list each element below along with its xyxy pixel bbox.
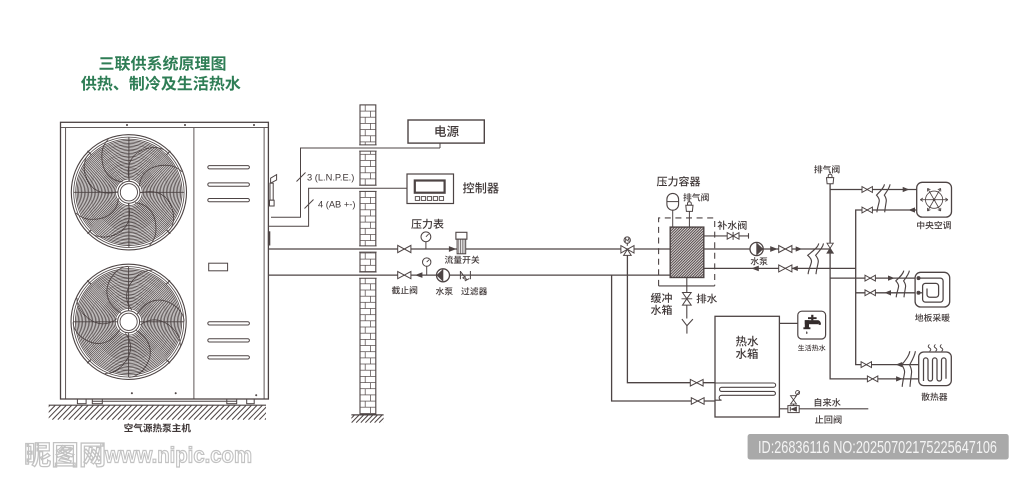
svg-text:3 (L.N.P.E.): 3 (L.N.P.E.) (307, 173, 354, 183)
svg-text:4 (AB +-): 4 (AB +-) (318, 200, 355, 210)
svg-text:www.nipic.com: www.nipic.com (104, 443, 252, 468)
svg-text:ID:26836116 NO:202507021752256: ID:26836116 NO:20250702175225647106 (758, 437, 997, 457)
